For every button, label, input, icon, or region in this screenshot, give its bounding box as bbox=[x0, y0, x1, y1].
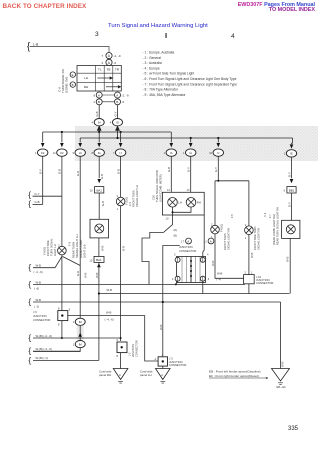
svg-text:-6: -6 bbox=[114, 61, 117, 65]
svg-text:- 9 : 45A, 55A Type Alternator: - 9 : 45A, 55A Type Alternator bbox=[143, 93, 187, 97]
svg-text:panel RH: panel RH bbox=[99, 373, 111, 377]
ground location notes bbox=[209, 369, 261, 378]
svg-text:1: 1 bbox=[251, 271, 253, 275]
svg-text:- 4 : Europe: - 4 : Europe bbox=[143, 66, 160, 70]
svg-text:- 8 : 70A Type Alternator: - 8 : 70A Type Alternator bbox=[143, 88, 179, 92]
ground symbol fender apron bbox=[272, 369, 290, 385]
svg-text:HI: HI bbox=[79, 151, 82, 155]
svg-text:1: 1 bbox=[73, 342, 75, 346]
svg-text:IH: IH bbox=[98, 121, 101, 125]
svg-text:IA: IA bbox=[170, 151, 173, 155]
hazard switch second pole bbox=[163, 246, 180, 357]
svg-text:B: B bbox=[98, 100, 100, 104]
svg-text:E: E bbox=[72, 73, 74, 77]
svg-text:1: 1 bbox=[73, 320, 75, 324]
svg-text:G-Y: G-Y bbox=[39, 169, 43, 174]
svg-text:K2: K2 bbox=[60, 151, 64, 155]
svg-text:9: 9 bbox=[73, 151, 75, 155]
hazard warning switch wire from meter bbox=[173, 207, 192, 225]
wire: oval5 to front turn signal light LH bbox=[120, 156, 122, 197]
svg-text:W-B: W-B bbox=[36, 280, 42, 284]
svg-text:9: 9 bbox=[283, 189, 285, 193]
header link right bbox=[238, 3, 315, 13]
wire: oval6 into combination meter bbox=[171, 156, 172, 197]
svg-text:G-B: G-B bbox=[101, 201, 105, 206]
section number 3 bbox=[95, 31, 99, 38]
svg-text:FRONT TURN: FRONT TURN bbox=[132, 190, 136, 207]
svg-text:(B): (B) bbox=[174, 235, 178, 238]
svg-text:12: 12 bbox=[167, 188, 170, 192]
svg-text:W-B: W-B bbox=[107, 288, 113, 292]
svg-text:{: { bbox=[28, 355, 31, 365]
svg-text:W-B: W-B bbox=[36, 264, 42, 268]
bus RH (lower) bbox=[80, 137, 292, 139]
ground bus W-B middle bbox=[99, 293, 290, 295]
wire: oval9 rear RH chain bbox=[291, 157, 293, 178]
svg-text:{: { bbox=[27, 42, 31, 53]
dotted strip between connector pair bbox=[77, 326, 84, 340]
svg-text:F 9(-E): F 9(-E) bbox=[43, 247, 47, 255]
svg-text:C16: C16 bbox=[152, 195, 156, 200]
svg-text:RH: RH bbox=[197, 201, 201, 205]
inline connector pair upper oval bbox=[75, 318, 85, 325]
J7 junction connector block bbox=[177, 257, 206, 283]
wire: oval4 to rear LH chain bbox=[98, 156, 100, 178]
wire color labels under ovals bbox=[39, 167, 292, 179]
svg-text:- 5 : w/ Front Side Turn Signa: - 5 : w/ Front Side Turn Signal Light bbox=[143, 72, 195, 76]
svg-text:{: { bbox=[28, 199, 31, 209]
svg-text:A: A bbox=[155, 357, 157, 361]
svg-text:G-B: G-B bbox=[58, 169, 62, 174]
wire front LH lamp ground long drop bbox=[120, 206, 122, 341]
svg-text:10: 10 bbox=[90, 189, 93, 193]
switch output pins bottom bbox=[96, 92, 120, 105]
svg-text:{: { bbox=[28, 332, 31, 342]
svg-text:-6: -6 bbox=[122, 100, 125, 104]
rear turn signal light LH box bbox=[90, 219, 109, 238]
junction connector J7 label circle A left bbox=[186, 238, 192, 244]
svg-text:(COMB. SW): (COMB. SW) bbox=[65, 77, 69, 93]
svg-text:LIGHT LH: LIGHT LH bbox=[53, 244, 57, 256]
ground stub W-B(-3,-6) bbox=[33, 350, 80, 352]
section marker I bbox=[165, 31, 167, 40]
page number 335 bbox=[288, 426, 298, 432]
svg-text:BA1: BA1 bbox=[96, 258, 102, 262]
connector oval row bbox=[38, 149, 297, 157]
svg-text:( -4, -6): ( -4, -6) bbox=[105, 318, 114, 322]
svg-text:3: 3 bbox=[174, 253, 176, 257]
svg-text:10: 10 bbox=[89, 258, 92, 262]
svg-text:G-B: G-B bbox=[167, 167, 171, 172]
wire front RH lamp ground bbox=[215, 234, 244, 278]
svg-text:TB: TB bbox=[107, 68, 111, 72]
wire switch LH output bbox=[98, 105, 100, 119]
connector A pin 3 bbox=[106, 59, 112, 65]
svg-text:1: 1 bbox=[172, 277, 174, 281]
svg-text:BA1: BA1 bbox=[96, 188, 102, 192]
stub wire to other page (lower) bbox=[33, 204, 43, 206]
svg-text:( -1): ( -1) bbox=[216, 277, 221, 281]
connector IJ1 oval bbox=[113, 119, 123, 126]
connector B1 LH bbox=[94, 256, 104, 262]
svg-text:LH: LH bbox=[84, 76, 88, 80]
wire front side RH lamp ground bbox=[248, 235, 250, 275]
svg-text:- 6 : Front Turn Signal Light: - 6 : Front Turn Signal Light and Cleara… bbox=[143, 77, 237, 81]
svg-text:G-Y: G-Y bbox=[214, 167, 218, 172]
svg-text:FRONT SIDE: FRONT SIDE bbox=[46, 240, 50, 256]
svg-text:LIGHT LH): LIGHT LH) bbox=[83, 244, 87, 258]
svg-text:FRONT SIDE TURN: FRONT SIDE TURN bbox=[253, 226, 257, 250]
svg-text:A: A bbox=[116, 93, 118, 97]
hazard switch blade bbox=[164, 225, 173, 233]
front side turn signal light LH (lamp) bbox=[58, 246, 67, 255]
section number 4 bbox=[231, 33, 235, 40]
svg-text:-2, -9: -2, -9 bbox=[122, 93, 129, 97]
svg-text:B: B bbox=[72, 83, 74, 87]
note underline arrow bbox=[209, 377, 268, 379]
svg-text:G-Y: G-Y bbox=[287, 202, 291, 207]
svg-text:G-Y: G-Y bbox=[187, 167, 191, 172]
table texts bbox=[84, 68, 120, 90]
svg-text:W-B: W-B bbox=[100, 245, 104, 251]
J7 pins bbox=[175, 257, 205, 281]
svg-text:A: A bbox=[108, 61, 111, 65]
svg-text:W-B: W-B bbox=[36, 298, 42, 302]
arrow into BA1 LH bbox=[97, 179, 101, 183]
svg-text:W-B: W-B bbox=[217, 272, 223, 276]
switch contact arrow RH row bbox=[106, 86, 118, 88]
svg-text:SIGNAL LIGHT LH: SIGNAL LIGHT LH bbox=[135, 185, 139, 207]
svg-text:1: 1 bbox=[245, 237, 247, 240]
rear turn LH bulb bbox=[95, 224, 104, 233]
svg-text:TL: TL bbox=[98, 68, 102, 72]
svg-text:IA: IA bbox=[189, 151, 192, 155]
svg-text:J 2: J 2 bbox=[128, 352, 132, 356]
svg-text:(REAR COMB. LIGHT RH): (REAR COMB. LIGHT RH) bbox=[272, 214, 276, 245]
arrow between connector pair bbox=[78, 333, 82, 337]
wire feed from page 3 (L-B) bbox=[30, 47, 109, 53]
junction connector J7 label circle A right bbox=[208, 238, 214, 244]
hazard switch body steps bbox=[142, 232, 164, 284]
svg-text:J 7: J 7 bbox=[181, 239, 185, 243]
switch contact arrow LH row bbox=[97, 77, 120, 88]
svg-text:LH: LH bbox=[178, 201, 182, 205]
connector BA1 LH bbox=[95, 187, 104, 193]
header link left bbox=[3, 3, 87, 10]
svg-text:8: 8 bbox=[58, 307, 60, 311]
svg-text:A: A bbox=[98, 93, 100, 97]
svg-text:( -6): ( -6) bbox=[34, 287, 39, 291]
svg-text:K2: K2 bbox=[41, 151, 45, 155]
bus drop wires bbox=[43, 132, 293, 144]
stub wire left y267.7 with diagonal to lamp bbox=[33, 257, 62, 268]
svg-text:8: 8 bbox=[117, 354, 119, 358]
front side turn signal light RH (lamp) bbox=[245, 226, 254, 235]
svg-text:CONNECTOR: CONNECTOR bbox=[169, 363, 186, 367]
svg-text:1: 1 bbox=[117, 208, 119, 211]
svg-text:JUNCTION: JUNCTION bbox=[131, 344, 135, 357]
turn indicator bulb LH bbox=[168, 198, 196, 208]
svg-text:G-B: G-B bbox=[100, 174, 104, 179]
front turn signal light LH (lamp) bbox=[116, 197, 125, 206]
svg-text:A: A bbox=[210, 239, 212, 243]
svg-text:CONNECTOR: CONNECTOR bbox=[256, 281, 273, 285]
svg-text:EB↔EF: EB↔EF bbox=[277, 385, 287, 389]
pin tie lines bbox=[102, 95, 114, 102]
wire into bus RH with up arrow bbox=[117, 130, 119, 138]
svg-text:( -1): ( -1) bbox=[34, 304, 39, 308]
wire: oval3 long drop bbox=[79, 156, 81, 318]
wire BA1 to rear lamp LH bbox=[98, 193, 100, 219]
svg-text:JUNCTION: JUNCTION bbox=[33, 314, 47, 318]
arrow up into B1 bbox=[97, 263, 101, 267]
svg-text:CONNECTOR: CONNECTOR bbox=[135, 340, 139, 357]
svg-text:A: A bbox=[119, 373, 121, 377]
J10 junction connector box bbox=[244, 275, 255, 284]
svg-text:2: 2 bbox=[245, 271, 247, 275]
J2 junction connector box bbox=[117, 342, 127, 353]
ground symbol cowl RH bbox=[113, 369, 128, 384]
svg-text:W-B: W-B bbox=[95, 272, 99, 278]
bus LH (upper) bbox=[43, 131, 172, 133]
svg-text:F 4: F 4 bbox=[128, 202, 132, 206]
svg-text:CONNECTOR: CONNECTOR bbox=[179, 249, 196, 253]
svg-text:J 1: J 1 bbox=[203, 239, 207, 243]
J9 junction connector box bbox=[58, 311, 68, 321]
turn signal switch C-9 table bbox=[77, 66, 121, 92]
svg-text:4: 4 bbox=[110, 120, 112, 124]
svg-text:F 5(-E): F 5(-E) bbox=[125, 197, 129, 205]
title bbox=[108, 23, 208, 29]
svg-text:13: 13 bbox=[187, 188, 190, 192]
svg-text:G-B: G-B bbox=[35, 200, 40, 204]
svg-text:G-Y: G-Y bbox=[35, 192, 40, 196]
svg-text:IG: IG bbox=[98, 151, 101, 155]
svg-text:G-Y: G-Y bbox=[113, 111, 117, 116]
svg-text:IE: IE bbox=[290, 152, 293, 156]
svg-text:A: A bbox=[161, 373, 163, 377]
svg-text:11: 11 bbox=[53, 151, 56, 155]
svg-text:REAR TURN SIGNAL LIGHT RH: REAR TURN SIGNAL LIGHT RH bbox=[275, 207, 279, 245]
wire into bus LH with up arrow bbox=[97, 126, 119, 138]
svg-text:FRONT TURN: FRONT TURN bbox=[223, 233, 227, 250]
svg-text:W-B: W-B bbox=[106, 311, 112, 315]
wire switch RH output bbox=[117, 105, 119, 119]
svg-text:B: B bbox=[116, 100, 118, 104]
svg-text:W-B: W-B bbox=[83, 272, 87, 278]
wire J3 to ground bbox=[162, 366, 164, 368]
wire: side lamp LH ground down bbox=[61, 255, 63, 311]
ground bus W-B lower bbox=[33, 302, 281, 369]
svg-text:{: { bbox=[28, 279, 31, 289]
svg-text:LIGHT(COMB. METER): LIGHT(COMB. METER) bbox=[159, 174, 163, 202]
svg-text:- 1 : Europe, Australia: - 1 : Europe, Australia bbox=[143, 51, 175, 55]
ground bus W-B upper bbox=[33, 284, 245, 286]
svg-text:W-(B) (-3, -6): W-(B) (-3, -6) bbox=[36, 347, 52, 351]
connector IJ2 oval bbox=[94, 119, 122, 126]
inline connector pair lower oval bbox=[75, 341, 85, 348]
svg-text:4: 4 bbox=[92, 120, 94, 124]
svg-text:- 2 : General: - 2 : General bbox=[143, 56, 162, 60]
ground stub W-B(-4,-6) bottom bbox=[33, 337, 121, 339]
front RH distribution wire bbox=[215, 181, 249, 226]
svg-text:RH: RH bbox=[84, 85, 88, 89]
stub wire to other page (upper) bbox=[33, 195, 62, 197]
meter ground wire to J7 bbox=[203, 215, 204, 257]
svg-text:W-B: W-B bbox=[211, 260, 215, 266]
rear turn RH bulb bbox=[286, 225, 295, 234]
svg-text:J 9: J 9 bbox=[33, 310, 37, 314]
svg-text:W-(B) (-1): W-(B) (-1) bbox=[36, 356, 48, 360]
connector A pin 7 bbox=[106, 53, 112, 66]
svg-text:G-B: G-B bbox=[122, 246, 126, 251]
wire: oval8 to front RH lights bbox=[217, 156, 219, 181]
svg-text:A: A bbox=[108, 54, 111, 58]
arrow into BB1 RH bbox=[290, 179, 294, 183]
svg-text:10: 10 bbox=[166, 217, 169, 221]
svg-text:W-B: W-B bbox=[250, 252, 254, 258]
svg-text:SIGNAL LIGHT RH: SIGNAL LIGHT RH bbox=[257, 228, 261, 250]
J7 pin wires down bbox=[176, 281, 203, 293]
svg-text:G-R: G-R bbox=[76, 171, 80, 176]
svg-text:L-B: L-B bbox=[33, 42, 39, 46]
wire: oval1 down to page-edge stubs bbox=[33, 156, 62, 204]
svg-text:F 7: F 7 bbox=[268, 214, 272, 218]
svg-text:F 4: F 4 bbox=[263, 212, 267, 216]
wire down to ground bus and to W-B(-1) stub bbox=[98, 262, 100, 360]
svg-text:A: A bbox=[187, 239, 189, 243]
svg-text:EB : Front left fender apron(G: EB : Front left fender apron(Gasoline) bbox=[209, 369, 261, 373]
svg-text:G-Y: G-Y bbox=[287, 172, 291, 177]
wire through J9 down bbox=[61, 321, 63, 338]
svg-text:9: 9 bbox=[93, 93, 95, 97]
svg-text:3: 3 bbox=[101, 61, 103, 65]
svg-text:4: 4 bbox=[207, 253, 209, 257]
svg-text:6: 6 bbox=[69, 308, 71, 312]
svg-text:-2, -9: -2, -9 bbox=[114, 54, 121, 58]
turn indicator bulb RH bbox=[186, 198, 196, 208]
wire J10 down to ground bus bbox=[248, 284, 250, 294]
wire BB1 to rear lamp RH bbox=[291, 193, 293, 220]
svg-text:- 7 : Front Turn Signal Light: - 7 : Front Turn Signal Light and Cleara… bbox=[143, 82, 238, 86]
svg-text:IG: IG bbox=[116, 121, 119, 125]
wire rear RH lamp ground down to bus corner bbox=[289, 238, 291, 293]
svg-text:W-B: W-B bbox=[285, 256, 289, 262]
diagonal lamp to x80 wire bbox=[63, 257, 81, 266]
bus junction dots bbox=[61, 131, 220, 139]
drop arrows into connectors bbox=[41, 143, 293, 149]
wire rear lamp LH ground down bbox=[98, 238, 100, 257]
combination meter box bbox=[162, 192, 204, 215]
svg-text:- 3 : Australia: - 3 : Australia bbox=[143, 61, 162, 65]
switch body pins left bbox=[70, 72, 75, 87]
option legend list bbox=[143, 51, 238, 97]
svg-text:W-B: W-B bbox=[159, 324, 163, 330]
connector BB1 RH bbox=[287, 187, 296, 193]
svg-text:EF : Front right fender apron(: EF : Front right fender apron(Diesel) bbox=[209, 374, 259, 378]
svg-text:8: 8 bbox=[58, 323, 60, 327]
wire: oval2 down to front side turn signal light LH bbox=[61, 156, 63, 246]
front turn signal light RH (lamp) bbox=[211, 225, 220, 234]
rear turn signal light RH box bbox=[282, 220, 300, 238]
svg-text:1: 1 bbox=[93, 100, 95, 104]
svg-text:SIGNAL LIGHT RH: SIGNAL LIGHT RH bbox=[227, 228, 231, 250]
shaded option region bbox=[75, 126, 318, 161]
svg-text:1: 1 bbox=[35, 151, 37, 155]
svg-text:{: { bbox=[28, 262, 31, 272]
svg-text:G-B: G-B bbox=[116, 169, 120, 174]
svg-text:G-B: G-B bbox=[95, 111, 99, 116]
svg-text:W-(B) (-4, -6): W-(B) (-4, -6) bbox=[36, 334, 52, 338]
svg-text:BB1: BB1 bbox=[289, 188, 295, 192]
svg-text:( -4, -6): ( -4, -6) bbox=[34, 270, 43, 274]
svg-text:W-B: W-B bbox=[281, 361, 285, 367]
wire from lower oval to left brace line bbox=[33, 348, 80, 352]
svg-text:TURN SIGNAL INDICATOR: TURN SIGNAL INDICATOR bbox=[155, 170, 159, 202]
svg-text:{: { bbox=[28, 296, 31, 306]
wire J2 to ground bbox=[120, 353, 122, 369]
svg-text:F 5: F 5 bbox=[230, 214, 234, 218]
svg-text:JUNCTION: JUNCTION bbox=[179, 245, 193, 249]
svg-text:(D): (D) bbox=[174, 229, 178, 232]
svg-text:6: 6 bbox=[208, 277, 210, 281]
wire J9 right to J3 bbox=[68, 316, 158, 361]
svg-text:CONNECTOR: CONNECTOR bbox=[33, 318, 50, 322]
wire: oval7 into combination meter bbox=[190, 156, 192, 197]
ground stub W-B(-1) bbox=[33, 359, 99, 361]
ground symbol cowl LH bbox=[156, 369, 171, 384]
svg-text:G-R: G-R bbox=[76, 271, 80, 276]
svg-text:7: 7 bbox=[101, 54, 103, 58]
svg-text:F 6(-E): F 6(-E) bbox=[219, 224, 223, 232]
svg-text:panel LH: panel LH bbox=[140, 373, 152, 377]
svg-text:TURN SIGNAL: TURN SIGNAL bbox=[50, 238, 54, 256]
J3 junction connector box bbox=[158, 357, 167, 366]
